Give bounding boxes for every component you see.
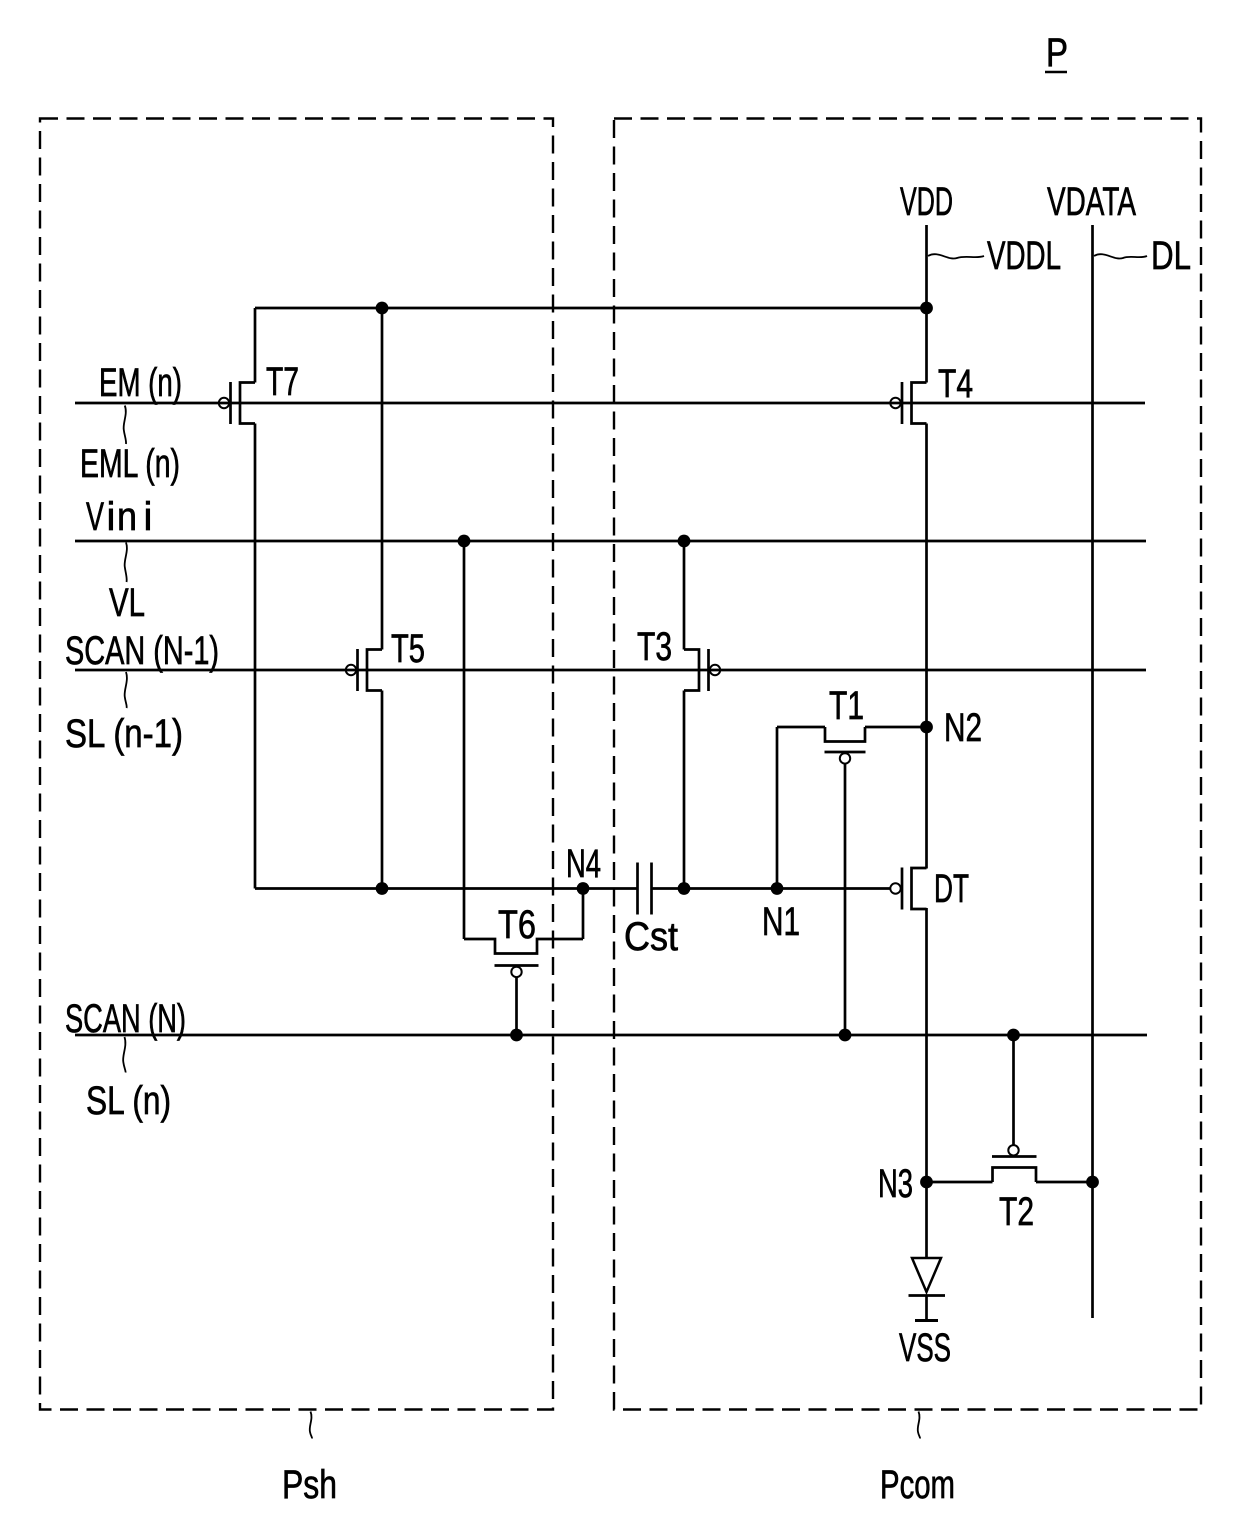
junction dot node N2 bbox=[920, 721, 933, 734]
wire node N4 rail bbox=[255, 887, 638, 890]
wire EM(n) line bbox=[75, 402, 1145, 405]
leader squiggle DL bbox=[1094, 254, 1147, 258]
wire T5 branch upper bbox=[381, 308, 384, 650]
svg-text:N4: N4 bbox=[566, 842, 601, 886]
wire top rail (T7 drain to VDD) bbox=[255, 307, 927, 310]
junction dot T2 drain on VDATA bbox=[1086, 1176, 1099, 1189]
wire OLED cathode stem bbox=[925, 1296, 928, 1320]
label DT bbox=[934, 867, 969, 911]
wire T2 gate from SCAN(N) bbox=[1012, 1035, 1015, 1145]
label Psh bbox=[282, 1463, 337, 1507]
svg-text:Psh: Psh bbox=[282, 1463, 337, 1507]
leader squiggle Vini bbox=[125, 543, 127, 583]
label T5 bbox=[391, 627, 425, 671]
svg-text:SL (n-1): SL (n-1) bbox=[65, 712, 183, 756]
leader squiggle Psh bbox=[310, 1412, 312, 1439]
svg-text:i: i bbox=[144, 495, 153, 539]
svg-text:Pcom: Pcom bbox=[880, 1463, 955, 1507]
leader squiggle EM(n) bbox=[124, 406, 126, 445]
svg-text:T7: T7 bbox=[266, 360, 299, 404]
label Pcom bbox=[880, 1463, 955, 1507]
label T4 bbox=[938, 362, 973, 406]
dashed box Pcom (common part) bbox=[614, 119, 1201, 1410]
svg-text:DT: DT bbox=[934, 867, 969, 911]
svg-text:T1: T1 bbox=[829, 684, 864, 728]
transistor T6 bbox=[464, 939, 583, 977]
svg-text:P: P bbox=[1046, 31, 1068, 75]
wire T6 gate to SCAN(N) bbox=[515, 977, 518, 1035]
svg-text:N1: N1 bbox=[762, 900, 800, 944]
dashed box Psh (shift part) bbox=[40, 119, 553, 1410]
wire SCAN(N-1) line bbox=[75, 669, 1146, 672]
svg-text:Cst: Cst bbox=[624, 915, 678, 959]
transistor T3 bbox=[684, 649, 720, 691]
node label N2 bbox=[944, 706, 982, 750]
transistor DT (driving) bbox=[890, 868, 926, 910]
junction dot node N1 bbox=[771, 882, 784, 895]
net label SL(n-1) bbox=[65, 712, 183, 756]
svg-text:VL: VL bbox=[109, 581, 145, 625]
junction dot top rail / T5 branch bbox=[376, 302, 389, 315]
wire T5 branch lower bbox=[381, 691, 384, 889]
net label VSS bbox=[899, 1326, 951, 1370]
svg-text:n: n bbox=[117, 495, 137, 539]
node label P (pixel) bbox=[1045, 31, 1068, 75]
junction dot Vini / T3 branch bbox=[678, 535, 691, 548]
label T7 bbox=[266, 360, 299, 404]
junction dot Vini / T6 branch bbox=[458, 535, 471, 548]
node label N1 bbox=[762, 900, 800, 944]
net label VDDL bbox=[987, 234, 1061, 278]
wire T7 source (from top rail) bbox=[254, 308, 257, 383]
node label N3 bbox=[878, 1162, 913, 1206]
junction dot T2 gate on SCAN(N) bbox=[1007, 1029, 1020, 1042]
svg-text:i: i bbox=[107, 495, 116, 539]
svg-text:V: V bbox=[86, 495, 104, 539]
transistor T7 bbox=[219, 382, 255, 424]
net label Vini bbox=[86, 495, 152, 539]
svg-text:EML (n): EML (n) bbox=[80, 442, 180, 486]
wire node N1 rail bbox=[652, 887, 890, 890]
junction dot T6 gate on SCAN(N) bbox=[510, 1029, 523, 1042]
capacitor Cst bbox=[638, 863, 652, 915]
wire VDDL (VDD rail) bbox=[925, 225, 928, 1257]
wire T3 drain (down to Cst) bbox=[683, 691, 686, 889]
leader squiggle SCAN(N) bbox=[123, 1037, 125, 1073]
ground VSS terminal bar bbox=[915, 1319, 938, 1322]
wire T1 source (from N1) bbox=[776, 727, 779, 889]
transistor T1 bbox=[777, 727, 927, 764]
svg-text:VDD: VDD bbox=[900, 180, 953, 224]
leader squiggle SCAN(N-1) bbox=[125, 672, 127, 708]
net label VDATA bbox=[1047, 180, 1136, 224]
label T6 bbox=[498, 903, 536, 947]
svg-text:T2: T2 bbox=[999, 1190, 1034, 1234]
svg-text:T5: T5 bbox=[391, 627, 425, 671]
junction dot N1 rail / T3 bbox=[678, 882, 691, 895]
svg-text:VDDL: VDDL bbox=[987, 234, 1061, 278]
label T2 bbox=[999, 1190, 1034, 1234]
wire SCAN(N) line bbox=[75, 1034, 1147, 1037]
net label EML(n) bbox=[80, 442, 180, 486]
net label VDD bbox=[900, 180, 953, 224]
wire Vini line bbox=[75, 540, 1146, 543]
net label DL bbox=[1151, 234, 1191, 278]
label T3 bbox=[637, 625, 672, 669]
net label EM(n) bbox=[99, 361, 182, 405]
svg-text:EM (n): EM (n) bbox=[99, 361, 182, 405]
junction dot top rail at VDDL bbox=[920, 302, 933, 315]
junction dot T1 gate on SCAN(N) bbox=[839, 1029, 852, 1042]
wire T1 gate to SCAN(N) bbox=[844, 764, 847, 1035]
wire T3 source (from Vini) bbox=[683, 541, 686, 650]
svg-text:N2: N2 bbox=[944, 706, 982, 750]
net label SCAN(N-1) bbox=[65, 629, 219, 673]
junction dot N4 rail / T5 branch bbox=[376, 882, 389, 895]
label Cst bbox=[624, 915, 678, 959]
svg-text:T3: T3 bbox=[637, 625, 672, 669]
svg-text:T4: T4 bbox=[938, 362, 973, 406]
node label N4 bbox=[566, 842, 601, 886]
junction dot node N3 bbox=[920, 1176, 933, 1189]
transistor T2 bbox=[927, 1145, 1093, 1182]
svg-text:N3: N3 bbox=[878, 1162, 913, 1206]
leader squiggle VDDL bbox=[928, 254, 984, 258]
wire DL (data rail VDATA) bbox=[1091, 225, 1094, 1318]
wire Vini to T6 source bbox=[463, 541, 466, 939]
svg-text:VDATA: VDATA bbox=[1047, 180, 1136, 224]
diode OLED bbox=[909, 1258, 946, 1296]
svg-text:SL (n): SL (n) bbox=[86, 1079, 171, 1123]
junction dot node N4 bbox=[577, 882, 590, 895]
svg-text:T6: T6 bbox=[498, 903, 536, 947]
label T1 bbox=[829, 684, 864, 728]
svg-text:SCAN (N-1): SCAN (N-1) bbox=[65, 629, 219, 673]
transistor T5 bbox=[346, 649, 382, 691]
wire T6 drain (to N4) bbox=[582, 889, 585, 940]
net label VL bbox=[109, 581, 145, 625]
svg-text:DL: DL bbox=[1151, 234, 1191, 278]
net label SCAN(N) bbox=[65, 997, 186, 1041]
svg-text:VSS: VSS bbox=[899, 1326, 951, 1370]
leader squiggle Pcom bbox=[918, 1412, 920, 1439]
svg-text:SCAN (N): SCAN (N) bbox=[65, 997, 186, 1041]
transistor T4 bbox=[890, 382, 926, 424]
wire T7 drain (down to N4 rail) bbox=[254, 424, 257, 889]
net label SL(n) bbox=[86, 1079, 171, 1123]
